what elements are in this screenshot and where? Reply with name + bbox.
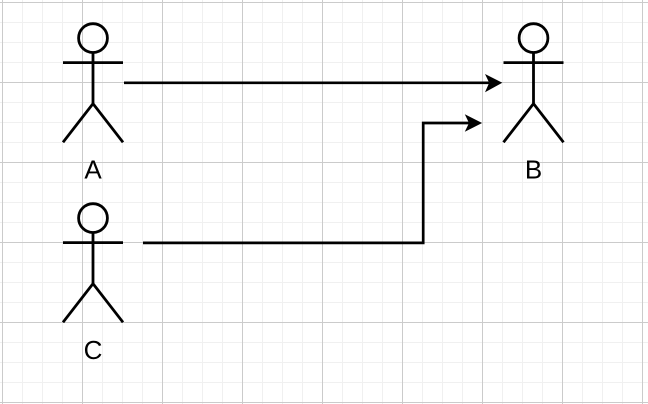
arrow A to B (arrowhead) xyxy=(485,74,502,92)
svg-text:B: B xyxy=(525,154,542,184)
arrow A to B (shaft) xyxy=(124,81,489,84)
actor C xyxy=(63,204,123,323)
connector C to B (elbow wire) xyxy=(143,123,469,243)
svg-text:C: C xyxy=(84,335,103,365)
svg-text:A: A xyxy=(84,154,102,184)
actor B xyxy=(504,24,564,143)
actor A xyxy=(63,24,123,143)
connector C to B (arrowhead) xyxy=(465,114,482,132)
